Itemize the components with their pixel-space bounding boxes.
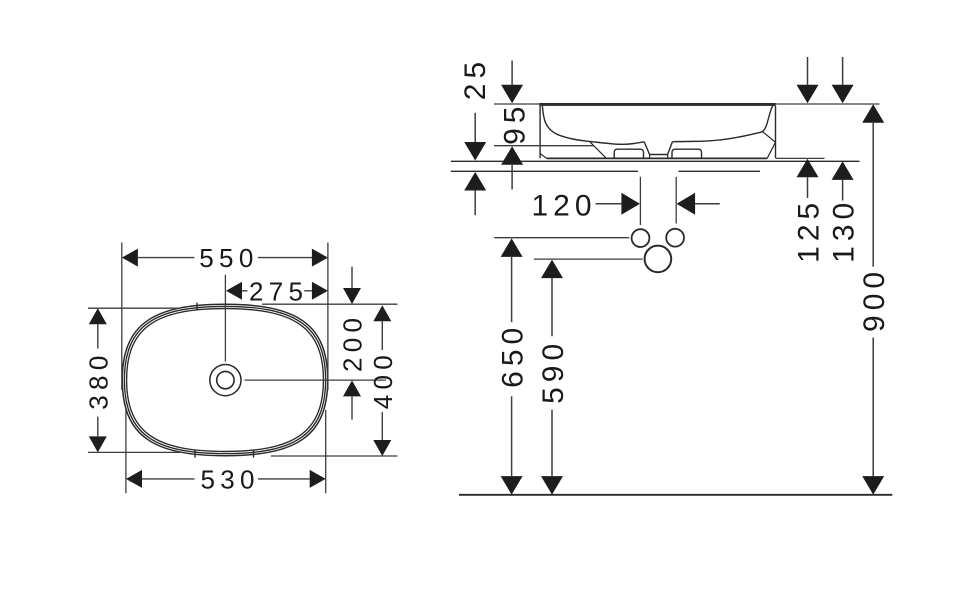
svg-text:590: 590 bbox=[537, 339, 570, 404]
svg-text:380: 380 bbox=[83, 350, 113, 409]
svg-text:400: 400 bbox=[368, 350, 398, 409]
svg-text:130: 130 bbox=[828, 198, 861, 263]
svg-text:125: 125 bbox=[792, 198, 825, 263]
svg-text:530: 530 bbox=[201, 464, 260, 494]
svg-text:200: 200 bbox=[337, 313, 367, 372]
svg-text:275: 275 bbox=[249, 276, 308, 306]
svg-text:120: 120 bbox=[531, 189, 596, 222]
svg-text:25: 25 bbox=[459, 57, 492, 100]
svg-text:900: 900 bbox=[858, 267, 891, 332]
svg-text:550: 550 bbox=[199, 243, 258, 273]
svg-text:95: 95 bbox=[498, 102, 531, 145]
svg-text:650: 650 bbox=[497, 323, 530, 388]
